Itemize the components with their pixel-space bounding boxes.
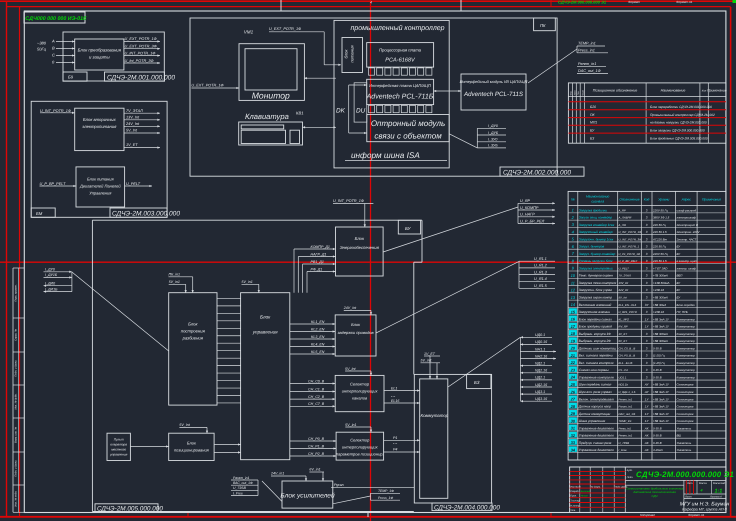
svg-text:16: 16 (571, 317, 576, 322)
svg-text:24V_Int: 24V_Int (618, 288, 629, 292)
svg-text:+5В 300мА: +5В 300мА (653, 339, 668, 343)
svg-text:Вкл. сигнала контроля: Вкл. сигнала контроля (579, 361, 614, 365)
signal table frame and header (568, 191, 726, 460)
svg-text:33: 33 (571, 440, 576, 445)
svg-text:4: 4 (700, 489, 703, 493)
svg-text:12: 12 (571, 288, 576, 293)
svg-text:UД0.1б: UД0.1б (535, 340, 548, 344)
svg-text:Коммутатор: Коммутатор (677, 346, 696, 350)
input U_INT_POTR_1Ф wire b (333, 199, 373, 227)
monitor VM1 (239, 30, 304, 101)
svg-text:U_ЯР1_POTR: U_ЯР1_POTR (619, 310, 637, 314)
CPU board Процессорная плата PCA-6168V (367, 43, 434, 68)
svg-text:13V_Int: 13V_Int (126, 116, 140, 120)
svg-text:Фор.: Фор. (569, 90, 572, 95)
svg-text:+5В 3мА 1У: +5В 3мА 1У (653, 383, 670, 387)
svg-text:19: 19 (571, 338, 576, 343)
svg-text:5V_in1: 5V_in1 (169, 280, 180, 284)
parts table header (568, 83, 726, 143)
label СДЧЭ-2М.002.000.000 (500, 167, 584, 177)
svg-text:1: 1 (572, 208, 574, 213)
svg-text:UД3.1: UД3.1 (535, 390, 545, 394)
industrial controller box промышленный контроллер (334, 20, 449, 168)
svg-text:+5В 300мА: +5В 300мА (653, 332, 668, 336)
keyboard КВ1 (239, 111, 304, 146)
svg-text:параметров позиционир.: параметров позиционир. (336, 452, 384, 457)
svg-text:Промышленный контроллер СДЧЭ-2: Промышленный контроллер СДЧЭ-2М.002 (650, 113, 715, 117)
svg-text:Коммутатор: Коммутатор (677, 375, 696, 379)
svg-text:СДЧЭ-2М.003.000.000: СДЧЭ-2М.003.000.000 (112, 211, 180, 218)
svg-text:Селекторов: Селекторов (677, 397, 694, 401)
wire stack to усилителей (262, 481, 282, 502)
svg-text:220 50 Гц: 220 50 Гц (652, 245, 666, 249)
input U_P_BP_PELT wire (40, 182, 77, 187)
svg-text:NД2.1б: NД2.1б (535, 369, 548, 373)
svg-text:Загрузочн. бункер 1сек: Загрузочн. бункер 1сек (579, 237, 614, 241)
svg-text:C: C (52, 53, 55, 58)
svg-text:Коммутатор: Коммутатор (677, 368, 696, 372)
svg-text:Селекторов: Селекторов (677, 390, 694, 394)
svg-text:Селектор: Селектор (350, 382, 370, 387)
svg-text:A_ЛАБРЯ: A_ЛАБРЯ (618, 216, 632, 220)
wires КОМПР НАГР РВ1 РФ (294, 245, 336, 293)
svg-text:Perem_in1: Perem_in1 (619, 434, 633, 438)
svg-text:Блок передач: Блок передач (677, 303, 696, 307)
svg-text:Селекторов: Селекторов (677, 383, 694, 387)
svg-text:A_ЯР: A_ЯР (618, 208, 626, 212)
svg-text:24: 24 (570, 375, 576, 380)
svg-text:+5В 3мА 1У: +5В 3мА 1У (653, 397, 670, 401)
svg-text:EL1...EL16: EL1...EL16 (619, 361, 633, 365)
svg-text:Масштаб: Масштаб (713, 482, 726, 485)
svg-text:АК: АК (644, 434, 649, 438)
wire diagonal to PCL-711S (528, 49, 577, 83)
svg-text:TEMP_1Ф: TEMP_1Ф (378, 489, 394, 493)
block Пульт оператора местного управления (107, 433, 130, 460)
svg-text:U_7ЗЅВ: U_7ЗЅВ (619, 441, 630, 445)
svg-text:Н.контр.: Н.контр. (570, 504, 580, 507)
svg-text:Справ. №: Справ. № (15, 329, 18, 341)
svg-text:Наименование: Наименование (661, 89, 686, 93)
bottom margin texts (640, 513, 705, 517)
svg-text:электр. шкаф: электр. шкаф (677, 266, 697, 270)
svg-text:+7 ЕТ ЗАО: +7 ЕТ ЗАО (653, 266, 668, 270)
svg-text:Зона: Зона (573, 90, 576, 96)
signal stack UД NН NД (520, 333, 556, 402)
wire EL1 (384, 386, 420, 404)
svg-text:Управление двигателя: Управление двигателя (579, 448, 614, 452)
svg-text:U_INT_POTR_1Ф: U_INT_POTR_1Ф (125, 51, 156, 55)
svg-text:Интерфейсный модуль I/В ЦАП/АЦ: Интерфейсный модуль I/В ЦАП/АЦП (460, 79, 528, 84)
interface module Adventech PCL-711S (460, 74, 528, 110)
svg-text:KL5_EN: KL5_EN (311, 350, 325, 354)
svg-text:27: 27 (570, 397, 576, 402)
svg-text:Белячий: Белячий (581, 490, 591, 493)
svg-text:Adventech PCL-711Б: Adventech PCL-711Б (366, 93, 434, 101)
svg-text:Разраб.: Разраб. (570, 490, 579, 493)
svg-text:Наименование: Наименование (586, 195, 610, 199)
svg-text:на базами нагрузки СДЧЭ-2М.003: на базами нагрузки СДЧЭ-2М.003.000 (650, 121, 707, 125)
svg-text:UД3.1б: UД3.1б (535, 397, 548, 401)
svg-text:Press_1Ф: Press_1Ф (378, 496, 393, 500)
svg-text:Adventech PCL-711S: Adventech PCL-711S (463, 91, 524, 98)
tag DU box (354, 83, 367, 122)
svg-text:380V 3Ф 1.5: 380V 3Ф 1.5 (653, 216, 670, 220)
svg-text:РФ_Д1: РФ_Д1 (311, 267, 323, 271)
svg-text:питания: питания (350, 45, 355, 63)
block Коммутатор (420, 379, 449, 498)
input 5V_in1 b (242, 280, 260, 293)
svg-text:22: 22 (570, 360, 576, 365)
svg-text:KL1_EN: KL1_EN (311, 320, 325, 324)
svg-text:Копировал: Копировал (640, 513, 655, 517)
svg-text:Блок вторичных: Блок вторичных (83, 117, 117, 122)
svg-text:Шум передачи сигнал: Шум передачи сигнал (579, 383, 612, 387)
svg-text:Кол: Кол (702, 90, 707, 93)
block Блок Энергообеспечения (336, 227, 384, 276)
svg-text:10: 10 (571, 273, 576, 278)
svg-text:Управление двигателя: Управление двигателя (579, 434, 614, 438)
input 1V_ЕТ 5V_in1 wires (421, 352, 441, 379)
svg-text:Подп. и дата: Подп. и дата (15, 360, 18, 377)
svg-text:Запуск секц. конвейер: Запуск секц. конвейер (579, 216, 612, 220)
svg-text:Прим: Прим (581, 90, 584, 96)
svg-text:14: 14 (571, 302, 576, 307)
svg-text:Взам. инв. №: Взам. инв. № (15, 427, 18, 443)
svg-text:1V_ЕТ: 1V_ЕТ (619, 332, 628, 336)
svg-text:50Гц: 50Гц (37, 47, 47, 52)
svg-text:30: 30 (571, 418, 576, 423)
svg-text:34: 34 (571, 447, 576, 452)
parts table red row lines (568, 102, 726, 133)
svg-text:Загрузка электродвиг.: Загрузка электродвиг. (579, 266, 614, 270)
label СДЧЭ-2М.003.000.000 (110, 208, 180, 218)
svg-text:дубл.: дубл. (627, 469, 633, 472)
svg-text:Т.контр.: Т.контр. (570, 500, 580, 503)
svg-text:1:1: 1:1 (715, 488, 723, 494)
svg-text:АК: АК (644, 441, 649, 445)
svg-text:ПК_in1: ПК_in1 (169, 273, 181, 277)
signal stack I_DU I_ZU (477, 124, 506, 148)
title block drawing number green (636, 470, 734, 479)
svg-text:Выбранн. корпуса 1Ф: Выбранн. корпуса 1Ф (579, 332, 612, 336)
svg-text:0-30 В: 0-30 В (653, 368, 662, 372)
svg-text:CH_C0_B...B: CH_C0_B...B (619, 346, 636, 350)
svg-text:шкаф распред: шкаф распред (677, 208, 697, 212)
svg-text:7V_ЭТАЛ: 7V_ЭТАЛ (619, 274, 631, 278)
svg-text:Темп. бункеров охранн: Темп. бункеров охранн (579, 274, 613, 278)
svg-text:I_Free: I_Free (233, 491, 243, 495)
output U_PELT wire (125, 182, 152, 187)
svg-text:A: A (51, 39, 55, 44)
svg-text:4-20мА: 4-20мА (653, 448, 663, 452)
svg-text:0-30 В: 0-30 В (653, 346, 662, 350)
svg-text:U_INT_POTR_3Ф: U_INT_POTR_3Ф (619, 237, 643, 241)
svg-text:Коммутатор: Коммутатор (677, 325, 696, 329)
block B20 Блок преобразования и защиты (СДЧЭ-2М.001.000.000) (63, 32, 164, 81)
svg-text:АК: АК (644, 426, 649, 430)
svg-text:20: 20 (570, 346, 576, 351)
green inventory label box (24, 12, 87, 23)
block Блок управления (241, 293, 290, 460)
svg-text:DU: DU (356, 108, 366, 115)
svg-text:Подп.: Подп. (627, 476, 634, 479)
svg-text:U_Я1.2: U_Я1.2 (534, 264, 548, 268)
svg-text:Код: Код (644, 198, 650, 202)
input 5V_in1 wire d (345, 423, 372, 432)
input 24V_Int wire (343, 306, 372, 315)
svg-text:Блок: Блок (260, 315, 271, 320)
wire U_EXT_POTR_1Ф to PSU (269, 27, 341, 66)
svg-text:СДЧЭ-2М.000.000.000 Э1: СДЧЭ-2М.000.000.000 Э1 (558, 0, 607, 5)
svg-text:Блок передачи сигнал: Блок передачи сигнал (579, 317, 612, 321)
signal stack TEMP_in1 Press_in1 (577, 42, 608, 53)
wire diagonal optocoupler to I stack (449, 134, 477, 148)
svg-text:Загрузочное алюмин: Загрузочное алюмин (579, 310, 610, 314)
svg-text:220V 50 Гц: 220V 50 Гц (652, 208, 668, 212)
svg-text:Уровни: Уровни (658, 198, 669, 202)
svg-text:МП1: МП1 (590, 121, 597, 125)
input U_EXT_POTR_1Ф to monitor (191, 83, 239, 89)
svg-text:0-30 В: 0-30 В (653, 434, 662, 438)
svg-text:CH_Р2_В: CH_Р2_В (308, 452, 325, 456)
CPU board connector row (369, 68, 432, 75)
power supply unit блок питания (342, 38, 363, 73)
svg-text:информ шина ISA: информ шина ISA (351, 151, 420, 160)
svg-text:EL16: EL16 (391, 399, 399, 403)
svg-text:Указатель: Указатель (677, 441, 692, 445)
svg-text:СДЧ: СДЧ (652, 494, 658, 498)
svg-text:Загруз. бункеров: Загруз. бункеров (579, 245, 605, 249)
svg-text:Perem_in1: Perem_in1 (619, 397, 633, 401)
svg-text:31: 31 (571, 426, 576, 431)
svg-text:15: 15 (571, 309, 576, 314)
svg-text:U_P_BP_PELT: U_P_BP_PELT (619, 259, 638, 263)
svg-text:Примечание: Примечание (707, 89, 727, 93)
svg-text:+5В 3мА 1У: +5В 3мА 1У (653, 405, 670, 409)
fold tick marks (188, 0, 551, 517)
svg-text:U_EXT_POTR_1Ф: U_EXT_POTR_1Ф (191, 83, 223, 87)
svg-text:Уровень загрузки блок: Уровень загрузки блок (579, 259, 613, 263)
svg-text:БЗ: БЗ (474, 380, 480, 385)
svg-text:I_ДУ0: I_ДУ0 (45, 268, 55, 272)
svg-text:разбиения: разбиения (182, 336, 204, 341)
green corner dot (733, 0, 736, 3)
svg-text:Инв. № подл.: Инв. № подл. (15, 490, 18, 506)
wire keyboard to controller (303, 126, 337, 128)
svg-text:Блок: Блок (351, 322, 361, 327)
wire пульт to позиционирования (130, 445, 168, 447)
svg-text:БМ: БМ (36, 211, 43, 216)
block Селектор интерполирующих каналов (335, 375, 384, 411)
svg-text:Р1: Р1 (393, 436, 397, 440)
svg-text:U_P1_POTR_1Ф: U_P1_POTR_1Ф (619, 252, 641, 256)
svg-text:1V_ЕТ: 1V_ЕТ (126, 143, 138, 147)
svg-text:CH_C1_В: CH_C1_В (308, 387, 325, 391)
svg-text:+5В 3мА 1У: +5В 3мА 1У (653, 390, 670, 394)
wire усилителей to TEMP bracket (333, 496, 371, 504)
svg-text:Б9: Б9 (68, 75, 74, 80)
svg-text:U_Я1.4: U_Я1.4 (534, 277, 547, 281)
section box БУ (СДЧЭ-2М.005.000.000) (92, 220, 422, 511)
svg-text:I_ЗУ0: I_ЗУ0 (488, 138, 497, 142)
interface board connector row (369, 105, 432, 112)
svg-text:Коммутатор: Коммутатор (677, 361, 696, 365)
parts table rows (590, 105, 715, 141)
svg-text:I_ДУБ: I_ДУБ (488, 131, 499, 135)
svg-text:Масса: Масса (699, 482, 707, 485)
svg-text:17: 17 (571, 324, 576, 329)
cell tag БУ (398, 220, 420, 234)
wire PCL-711Б to PCL-711S (434, 90, 461, 92)
svg-text:позиционирования: позиционирования (174, 448, 210, 453)
svg-text:CH_C2_В: CH_C2_В (308, 395, 325, 399)
svg-text:управления: управления (109, 453, 128, 457)
svg-text:Press_in1: Press_in1 (578, 48, 595, 52)
wire diagonal коммутатор to UД stack (448, 337, 520, 387)
svg-text:U_КОМПР: U_КОМПР (520, 206, 539, 210)
svg-text:Пульт: Пульт (114, 438, 124, 442)
svg-text:Включение алюминий: Включение алюминий (579, 303, 612, 307)
svg-text:Коммутатор: Коммутатор (677, 354, 696, 358)
wire diagonal I stack to блок построения (72, 272, 169, 351)
svg-text:Коммутатор: Коммутатор (677, 317, 696, 321)
svg-text:Селекторов: Селекторов (677, 405, 694, 409)
svg-text:U_Int_POTR_3Ф: U_Int_POTR_3Ф (125, 59, 154, 63)
svg-text:6V_in1: 6V_in1 (309, 468, 320, 472)
svg-text:13V_Int: 13V_Int (619, 281, 629, 285)
svg-text:Формат: Формат (628, 0, 640, 4)
input 5V_in1 a (169, 280, 187, 293)
svg-text:Носов: Носов (581, 495, 589, 498)
svg-text:СДЧЭ-2М.004.000.000: СДЧЭ-2М.004.000.000 (434, 504, 500, 511)
block Селектор интерполирующих параметров (336, 432, 384, 460)
svg-text:I_ДИ0: I_ДИ0 (45, 281, 55, 285)
svg-text:Подп. и дата: Подп. и дата (15, 460, 18, 477)
title block lit massa masshtab (627, 469, 726, 499)
svg-text:U_7ЗЅВ: U_7ЗЅВ (233, 486, 247, 490)
svg-text:Электрощит В: Электрощит В (677, 223, 699, 227)
svg-text:U_PELT: U_PELT (126, 182, 141, 186)
svg-text:Блок усилителей: Блок усилителей (280, 493, 335, 500)
signal stack Perem_in1 DAC_out_1Ф (577, 62, 608, 74)
svg-text:24V_Int: 24V_Int (343, 306, 357, 310)
svg-text:АК: АК (644, 448, 649, 452)
svg-text:EL1: EL1 (391, 386, 397, 390)
ISA bus label информ шина ISA (345, 151, 447, 161)
wire P1 P4 (384, 436, 420, 453)
svg-text:U_INT_POTR_1Ф: U_INT_POTR_1Ф (333, 199, 364, 203)
svg-text:Перв. примен.: Перв. примен. (15, 284, 18, 302)
cell tag ПК (534, 18, 556, 31)
signal table cell text (569, 208, 701, 453)
svg-text:каналов: каналов (352, 396, 367, 401)
svg-text:VM1: VM1 (244, 30, 254, 35)
svg-text:ПК: ПК (540, 23, 546, 28)
svg-text:0-30 В: 0-30 В (653, 441, 662, 445)
svg-text:ВШ: ВШ (677, 434, 682, 438)
svg-text:220 50 1.5: 220 50 1.5 (652, 259, 667, 263)
svg-text:NН1.1: NН1.1 (535, 347, 545, 351)
block Блок усилителей (280, 481, 335, 508)
svg-text:U_Я1.3: U_Я1.3 (534, 270, 548, 274)
svg-text:U_INT_POTR_1: U_INT_POTR_1 (619, 245, 640, 249)
svg-text:24V_Int: 24V_Int (125, 122, 140, 126)
svg-text:+5В 3мА 1У: +5В 3мА 1У (653, 317, 670, 321)
svg-text:Датчики шин коммутац: Датчики шин коммутац (578, 346, 616, 350)
input wires A B C 0 ~380V 50Hz (37, 39, 75, 65)
svg-text:KL_ЯР2: KL_ЯР2 (619, 317, 630, 321)
svg-text:U_PELT: U_PELT (619, 266, 630, 270)
svg-text:UД2.1: UД2.1 (535, 376, 545, 380)
svg-text:+5В 3мА 1У: +5В 3мА 1У (653, 325, 670, 329)
interface board Adventech PCL-711Б (366, 79, 434, 104)
svg-text:DK: DK (336, 108, 346, 115)
svg-text:+5В 300мА: +5В 300мА (653, 295, 668, 299)
block Блок позиционирования (169, 433, 214, 460)
svg-text:Поз.: Поз. (577, 90, 580, 95)
svg-text:+5В 3мА 1У: +5В 3мА 1У (653, 419, 670, 423)
svg-text:Инв. № дубл.: Инв. № дубл. (15, 393, 18, 409)
svg-text:24V_in1: 24V_in1 (270, 472, 284, 476)
svg-text:11: 11 (571, 280, 575, 285)
input 5V_Int wire e (179, 423, 208, 433)
svg-text:U_INT_POTR_1Ф: U_INT_POTR_1Ф (619, 230, 643, 234)
svg-text:и защиты: и защиты (89, 55, 111, 60)
svg-text:NД2.1: NД2.1 (535, 362, 545, 366)
block Блок задержки привода (335, 315, 376, 356)
svg-text:Листов 4: Листов 4 (709, 496, 722, 499)
svg-text:KL2_EN: KL2_EN (311, 327, 325, 331)
block Блок вторичных источников (СДЧЭ-2М.003.000.000) (31, 101, 167, 217)
svg-text:Управления: Управления (89, 191, 112, 196)
svg-text:оператора: оператора (110, 443, 127, 447)
svg-text:Подп. Дата: Подп. Дата (615, 485, 628, 488)
svg-text:МГУ им Н.Э. Бауман: МГУ им Н.Э. Бауман (680, 502, 730, 508)
svg-text:блок: блок (344, 49, 349, 59)
wire DK to boards (349, 84, 367, 134)
svg-text:Кафедра МТ, группа АП-9: Кафедра МТ, группа АП-9 (682, 508, 727, 512)
svg-text:KL3_EN: KL3_EN (311, 335, 325, 339)
svg-text:32: 32 (571, 433, 576, 438)
svg-text:Селектор: Селектор (350, 438, 370, 443)
svg-text:13: 13 (571, 295, 576, 300)
svg-text:Лит.: Лит. (686, 482, 693, 485)
svg-text:Загрузочн. блок управ: Загрузочн. блок управ (579, 288, 612, 292)
signal stack Param ВАС U_7ЗЅВ I_Free (231, 476, 258, 496)
top edge cropped text fragments (370, 0, 693, 5)
svg-text:25: 25 (570, 382, 576, 387)
svg-text:Клавиатура: Клавиатура (245, 112, 289, 121)
cell tag БМ (31, 208, 55, 217)
svg-text:СДЧЭ-2М.001.000.000: СДЧЭ-2М.001.000.000 (107, 74, 175, 81)
svg-text:29: 29 (570, 411, 576, 416)
svg-text:7V_ЭТАЛ: 7V_ЭТАЛ (126, 109, 143, 113)
svg-text:Загруз. бункер конвейер: Загруз. бункер конвейер (579, 252, 616, 256)
svg-text:Блок: Блок (187, 441, 197, 446)
svg-text:CH_C0_В: CH_C0_В (308, 379, 325, 383)
svg-text:~380: ~380 (37, 41, 47, 46)
svg-text:Лист: Лист (684, 496, 693, 499)
svg-text:Позиционное обозначение: Позиционное обозначение (593, 89, 637, 93)
svg-text:НАГР_Д1: НАГР_Д1 (311, 252, 327, 256)
svg-text:Блок: Блок (188, 322, 198, 327)
svg-text:U_Р_БР_РЕЛ: U_Р_БР_РЕЛ (520, 219, 545, 223)
bus ladder wires (217, 298, 241, 403)
signal stack U_ЯР U_КОМПР U_НАГР U_Р_БР_РЕЛ (518, 199, 555, 225)
svg-text:U_ЯР: U_ЯР (520, 199, 530, 203)
svg-text:CH_C7_В: CH_C7_В (308, 402, 325, 406)
